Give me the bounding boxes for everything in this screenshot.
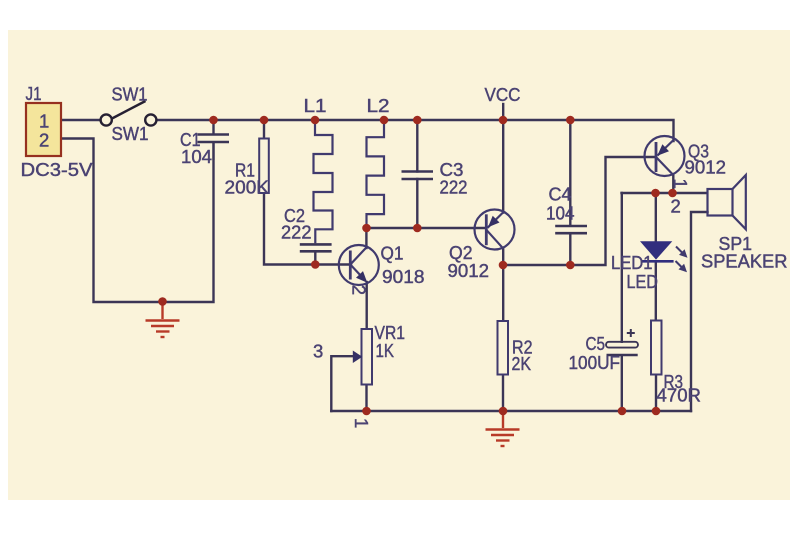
svg-text:2: 2 <box>349 285 370 295</box>
transistor Q2 <box>475 210 515 250</box>
wire Q2 emitter to VCC rail <box>502 120 504 213</box>
wire C3 bottom lead <box>416 179 418 228</box>
wire C3 top lead <box>416 120 418 172</box>
node Q2 collector <box>499 261 508 270</box>
wire C1 top lead <box>212 120 214 134</box>
wire main top rail <box>157 120 674 141</box>
wire C5 bottom lead <box>621 356 623 411</box>
capacitor C3 <box>402 172 434 180</box>
node C4 bottom <box>566 261 575 270</box>
wire LED anode lead <box>655 193 657 241</box>
wire LED rail <box>622 192 708 194</box>
ground (bottom, under R2) <box>486 411 520 446</box>
svg-text:1: 1 <box>39 111 49 132</box>
LED LED1 <box>640 241 672 259</box>
wire C4 top lead <box>569 120 571 225</box>
svg-text:104: 104 <box>181 146 212 167</box>
connector J1 <box>26 103 61 156</box>
node R3 bottom <box>652 407 661 416</box>
svg-text:DC3-5V: DC3-5V <box>21 159 94 180</box>
node C1/top rail <box>209 116 218 125</box>
svg-text:100UF: 100UF <box>569 352 621 373</box>
node C5 bottom <box>618 407 627 416</box>
wire VCC stub <box>502 104 504 120</box>
svg-text:222: 222 <box>440 177 468 198</box>
svg-text:LED: LED <box>627 271 659 292</box>
node C3 bottom <box>413 224 422 233</box>
svg-text:2K: 2K <box>512 353 532 374</box>
svg-text:9012: 9012 <box>448 260 490 281</box>
node L2/Q1 collector <box>362 224 371 233</box>
svg-text:2: 2 <box>39 130 49 151</box>
capacitor C2 <box>300 244 332 251</box>
node VR1 bottom <box>362 407 371 416</box>
wire R2 bottom lead <box>502 375 504 412</box>
svg-text:L2: L2 <box>367 95 390 116</box>
resistor R3 <box>651 321 662 375</box>
wire J1 pin1 to SW1 <box>61 119 100 121</box>
switch SW1 <box>101 101 157 126</box>
svg-text:3: 3 <box>313 341 323 362</box>
svg-text:2: 2 <box>671 196 681 217</box>
speaker SP1 <box>708 175 746 229</box>
inductor L1 <box>314 120 333 243</box>
wire VR1 bottom lead <box>365 385 367 412</box>
wire VR1 wiper loop <box>331 356 353 411</box>
node R1/top rail <box>260 116 269 125</box>
svg-text:1: 1 <box>670 179 691 189</box>
wire Q1 emitter to VR1 <box>366 282 368 329</box>
wire C4 bottom lead <box>569 234 571 265</box>
node LED anode <box>651 189 660 198</box>
wire L2 bottom rail to Q2 base <box>367 227 487 229</box>
wire R1 bottom to Q1 base <box>264 193 351 265</box>
wire bottom rail <box>331 410 691 412</box>
node VCC/Q2 <box>499 116 508 125</box>
svg-text:SPEAKER: SPEAKER <box>701 251 788 272</box>
transistor Q3 <box>645 136 685 176</box>
node C2/Q1 base <box>311 260 320 269</box>
svg-text:470R: 470R <box>657 385 702 406</box>
svg-text:9018: 9018 <box>382 266 425 287</box>
wire LED cathode to R3 <box>655 262 657 320</box>
resistor R1 <box>259 139 269 194</box>
capacitor C1 <box>198 135 230 161</box>
svg-text:C4: C4 <box>549 184 572 205</box>
potentiometer VR1 <box>362 329 373 385</box>
svg-text:C5: C5 <box>586 333 606 354</box>
wire Q1 collector lead <box>365 228 367 248</box>
wire R3 bottom lead <box>655 375 657 412</box>
wire J1 pin2 to ground loop to C1 <box>61 139 214 303</box>
svg-text:9012: 9012 <box>685 157 727 178</box>
svg-text:1: 1 <box>351 418 372 428</box>
svg-text:J1: J1 <box>26 83 42 104</box>
capacitor C5 <box>606 342 638 348</box>
svg-text:VCC: VCC <box>485 84 521 105</box>
svg-text:LED1: LED1 <box>611 252 653 273</box>
wire C2 bottom lead <box>314 252 316 264</box>
wire Q2 collector to R2 <box>502 249 504 322</box>
node C3/top rail <box>413 116 422 125</box>
svg-text:Q1: Q1 <box>381 243 404 264</box>
inductor L2 <box>367 120 385 228</box>
wire Q3 collector lead <box>672 175 674 193</box>
resistor R2 <box>498 321 509 375</box>
svg-text:SW1: SW1 <box>112 123 149 144</box>
wire R1 top lead <box>263 120 265 139</box>
transistor Q1 <box>339 245 379 285</box>
wire C5 top lead <box>621 193 623 342</box>
wire speaker terminal 2 <box>691 212 708 411</box>
capacitor C4 <box>555 226 587 233</box>
node C4/top rail <box>566 116 575 125</box>
node L2/top rail <box>380 116 389 125</box>
node L1/top rail <box>311 116 320 125</box>
node Q3 collector <box>668 189 677 198</box>
svg-text:104: 104 <box>546 203 575 224</box>
svg-text:SW1: SW1 <box>112 84 148 105</box>
svg-text:200K: 200K <box>225 177 270 198</box>
node ground J1 <box>158 297 167 306</box>
ground (left, J1 return) <box>146 302 180 338</box>
node R2 bottom <box>499 407 508 416</box>
svg-text:1K: 1K <box>376 340 395 361</box>
svg-text:222: 222 <box>281 222 312 243</box>
svg-text:L1: L1 <box>304 95 327 116</box>
wire Q2 collector rail to Q3 base <box>503 157 656 265</box>
